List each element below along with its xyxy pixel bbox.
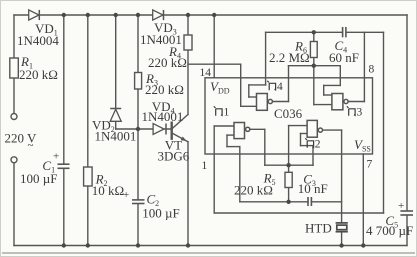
svg-text:3: 3 (357, 107, 363, 119)
svg-text:220 kΩ: 220 kΩ (234, 183, 273, 198)
svg-text:+: + (53, 151, 59, 163)
svg-text:7: 7 (367, 159, 373, 171)
svg-text:~: ~ (28, 140, 34, 152)
svg-text:+: + (398, 200, 404, 212)
svg-text:1N4004: 1N4004 (17, 33, 59, 48)
svg-text:14: 14 (200, 67, 212, 79)
svg-text:+: + (123, 189, 129, 201)
svg-text:2: 2 (315, 139, 321, 151)
svg-text:2.2 MΩ: 2.2 MΩ (269, 50, 310, 65)
svg-text:10 nF: 10 nF (298, 181, 328, 196)
svg-text:C036: C036 (274, 106, 303, 121)
svg-text:220 kΩ: 220 kΩ (19, 67, 58, 82)
svg-text:4: 4 (277, 81, 283, 93)
svg-text:1: 1 (202, 160, 208, 172)
svg-text:220 kΩ: 220 kΩ (145, 82, 184, 97)
svg-text:8: 8 (369, 64, 375, 76)
svg-text:10 kΩ: 10 kΩ (92, 183, 124, 198)
svg-text:3DG6: 3DG6 (158, 149, 190, 164)
svg-text:1: 1 (224, 107, 230, 119)
svg-text:4 700 µF: 4 700 µF (366, 223, 413, 238)
svg-text:HTD: HTD (305, 221, 332, 236)
svg-text:1N4001: 1N4001 (95, 129, 137, 144)
svg-text:1N4001: 1N4001 (142, 109, 184, 124)
svg-text:60 nF: 60 nF (329, 50, 359, 65)
svg-text:220 kΩ: 220 kΩ (148, 55, 187, 70)
svg-text:100 µF: 100 µF (20, 171, 57, 186)
svg-text:100 µF: 100 µF (142, 206, 179, 221)
